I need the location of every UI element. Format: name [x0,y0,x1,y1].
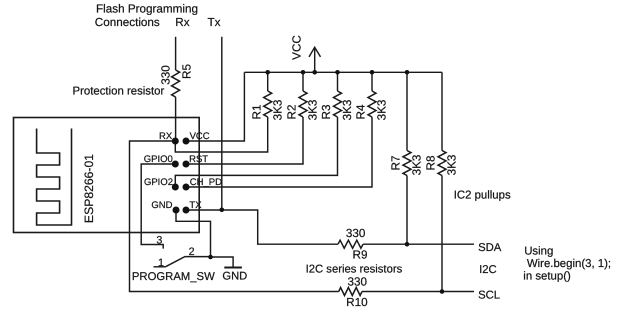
svg-text:2: 2 [189,246,195,258]
svg-text:R2: R2 [286,105,299,120]
svg-text:I2C: I2C [479,264,497,276]
svg-text:CH_PD: CH_PD [190,177,222,188]
svg-text:SCL: SCL [478,289,500,301]
svg-text:R1: R1 [250,105,263,120]
svg-text:330: 330 [346,227,366,240]
svg-text:SDA: SDA [478,242,502,254]
svg-text:R8: R8 [425,156,438,171]
svg-text:Connections: Connections [95,16,160,29]
svg-text:RX: RX [159,131,173,142]
svg-text:Tx: Tx [208,16,221,29]
svg-text:R4: R4 [355,104,368,119]
svg-text:3K3: 3K3 [411,155,424,176]
svg-text:PROGRAM_SW: PROGRAM_SW [132,271,215,283]
svg-text:GPIO0: GPIO0 [144,154,173,165]
svg-text:3K3: 3K3 [271,100,284,121]
svg-text:Protection resistor: Protection resistor [73,85,165,97]
svg-text:R9: R9 [353,249,368,262]
svg-text:1: 1 [158,257,164,269]
svg-text:Flash Programming: Flash Programming [96,3,198,16]
svg-text:330: 330 [347,276,367,289]
svg-text:330: 330 [159,65,172,85]
svg-text:VCC: VCC [291,35,304,60]
svg-text:in setup(): in setup() [523,271,571,283]
svg-text:R7: R7 [390,156,403,171]
svg-text:Rx: Rx [175,16,189,29]
svg-text:Using: Using [524,245,553,257]
svg-text:VCC: VCC [190,131,210,142]
svg-text:GPIO2: GPIO2 [144,177,173,188]
svg-text:TX: TX [189,200,202,211]
svg-text:ESP8266-01: ESP8266-01 [82,154,96,223]
svg-text:3K3: 3K3 [307,100,320,121]
svg-text:3K3: 3K3 [341,100,354,121]
svg-text:R10: R10 [346,296,368,309]
svg-text:3K3: 3K3 [376,100,389,121]
svg-text:GND: GND [151,200,172,211]
svg-text:R3: R3 [320,105,333,120]
svg-text:I2C series resistors: I2C series resistors [306,264,403,276]
svg-text:RST: RST [189,154,208,165]
svg-text:GND: GND [222,270,247,282]
svg-text:IC2 pullups: IC2 pullups [454,190,511,202]
svg-text:3: 3 [156,235,162,247]
svg-text:R5: R5 [181,64,194,79]
svg-text:Wire.begin(3, 1);: Wire.begin(3, 1); [527,258,611,270]
svg-text:3K3: 3K3 [446,155,459,176]
